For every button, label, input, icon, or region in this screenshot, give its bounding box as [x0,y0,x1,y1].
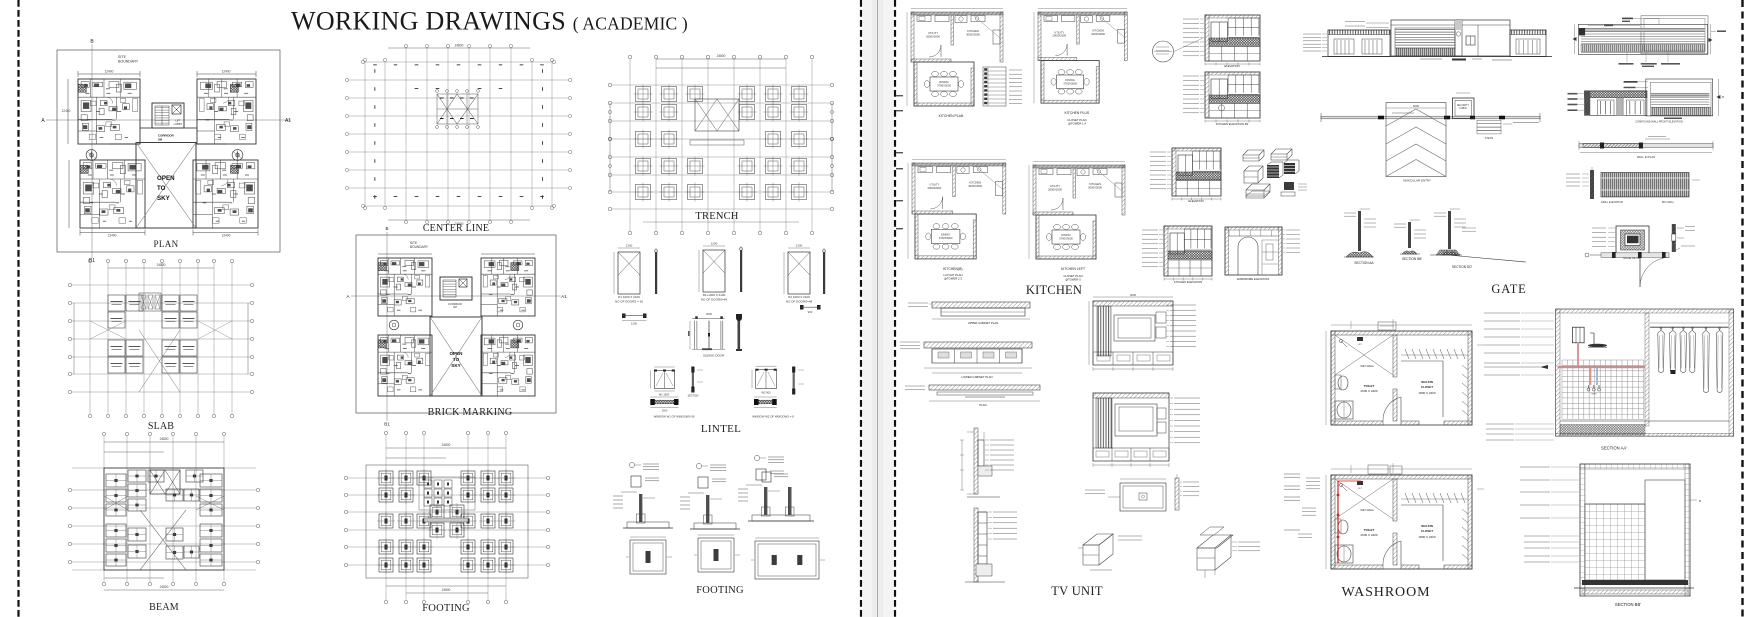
brick dim top [378,253,432,255]
section AA lower-left leaders [1486,423,1514,425]
svg-text:KITCHEN ELEVATION: KITCHEN ELEVATION [1174,280,1202,284]
svg-text:1200: 1200 [796,244,803,248]
wall plan section R3 [1579,137,1713,160]
washroom2 top fixtures [1368,465,1388,474]
svg-text:SKY: SKY [451,363,460,368]
svg-text:DINING: DINING [1065,78,1074,82]
tv section detail 1 [974,428,978,494]
svg-text:B: B [1699,499,1701,503]
corridor walls [140,127,152,129]
svg-text:3000X3000: 3000X3000 [1091,32,1105,36]
svg-text:12400: 12400 [62,109,71,113]
door swing detail R6 [1585,246,1695,287]
svg-text:2000X2000: 2000X2000 [926,35,940,39]
beam main outline [104,468,224,570]
slab grid horizontals [72,284,250,286]
R1 bottom leaders [1626,52,1628,62]
unit lower-right [193,160,258,228]
door plan detail right [800,305,804,310]
gate top leaders [1366,22,1389,24]
kitchen detail circle [1153,41,1174,62]
shower head [1593,333,1595,344]
kitchen counters [1044,16,1058,22]
gate leader notes left [1303,33,1321,35]
3d cabinet shelves dark [1267,165,1279,178]
geyser unit [1572,327,1584,343]
svg-text:WALKIN: WALKIN [1421,524,1433,528]
washroom dims [1325,475,1327,569]
svg-text:CLOSET: CLOSET [1421,529,1433,533]
footing section F3 double [768,456,784,458]
gate left wing [1328,30,1390,57]
svg-text:KITCHEN: KITCHEN [1092,28,1104,32]
svg-text:WINDOW W1 OF WINDOWS-56: WINDOW W1 OF WINDOWS-56 [654,415,695,419]
unit upper-right [197,79,256,144]
R1 leader notes top [1622,18,1633,20]
svg-text:1200: 1200 [631,322,638,326]
svg-text:CENTER LINE: CENTER LINE [423,223,489,234]
grid vertical lines [364,62,366,206]
section BB leaders [1520,466,1550,468]
section AA outer walls [1556,309,1734,436]
kitchen upper walls [912,165,1006,214]
footing plan F2 [698,538,734,572]
site boundary rectangle [57,50,280,252]
compass rose right [232,150,243,161]
kitchen counters [918,167,932,173]
svg-text:WINDOW W2 OF WINDOWS = 8: WINDOW W2 OF WINDOWS = 8 [752,415,794,419]
svg-text:24800: 24800 [455,44,464,48]
svg-text:A: A [346,294,349,299]
kitchen door arc [930,197,942,209]
svg-text:KITCHEN PLUS: KITCHEN PLUS [1064,111,1089,115]
sheet divider center dashed lines [860,0,862,617]
footing grid horizontals [348,477,546,479]
svg-text:12400: 12400 [222,234,231,238]
kitchen dims [1028,165,1030,215]
svg-text:LINTEL: LINTEL [701,423,741,435]
svg-text:SECTION DD': SECTION DD' [1452,265,1473,269]
section BB tiled wall [1585,504,1645,580]
red water pipe [1337,481,1339,563]
door jamb section [740,250,742,292]
window W1 sill plan [650,399,655,405]
trench dims [656,58,786,60]
gate elevation [1303,20,1552,61]
unit lower-left [80,160,145,228]
tv unit elevation 2 [1093,393,1169,461]
svg-text:WARDROBE ELEVATION: WARDROBE ELEVATION [1237,277,1269,281]
door elevation [788,252,810,294]
section DD wall [1434,212,1446,214]
footing layout FOOTING [344,431,549,614]
svg-text:TO: TO [453,357,460,362]
window W1 section bar [691,367,694,373]
section BB wall [1394,223,1406,225]
svg-text:COMPOUND WALL FRONT ELEVATION: COMPOUND WALL FRONT ELEVATION [1635,119,1683,123]
compound wall elevation R1 [1573,16,1727,67]
washroom partition wall [1393,479,1397,521]
tv elevation2 leaders [1174,397,1200,399]
centerline A-A1 horizontal [46,119,291,121]
svg-text:KITCHEN: KITCHEN [1089,182,1101,186]
brick lift block [440,277,472,300]
section AA pink horizontal pipe [1558,366,1645,368]
sheet border right dashed [1741,0,1743,617]
kitchen counters [917,16,931,22]
basin fixture [1335,545,1353,563]
slab outer dims [108,267,214,269]
lower cabinet plan [924,342,1032,348]
dining room walls [1041,61,1099,104]
trench grid verticals [629,59,631,231]
security cabin [1453,98,1475,119]
washroom outer walls [1331,475,1472,569]
trench pits [636,87,651,102]
section AA floor [1560,420,1729,422]
grid horizontal lines [365,61,552,63]
svg-text:BRICK MARKING: BRICK MARKING [428,407,513,418]
svg-text:3700X3000: 3700X3000 [939,236,953,240]
svg-text:GATE: GATE [1491,282,1526,296]
svg-text:LOBBY: LOBBY [174,122,183,126]
footing section F1 [643,463,659,465]
svg-text:WET AREA: WET AREA [1360,508,1374,512]
svg-text:W2 900: W2 900 [762,391,771,395]
brick centerlines [386,232,388,421]
kitchen door arc [929,45,941,57]
gate center structure [1391,20,1510,56]
svg-text:NO OF DOORS=64: NO OF DOORS=64 [701,298,728,302]
svg-text:3600: 3600 [1130,293,1137,297]
svg-text:VEHICULAR ENTRY: VEHICULAR ENTRY [1403,179,1431,183]
svg-text:900: 900 [808,310,813,314]
R2 labels [1664,118,1682,120]
brick unit upper-left [378,258,432,316]
beam lift core [150,470,180,494]
R2 right slat band [1651,107,1710,115]
brick site boundary [356,235,556,413]
footing plan F1 [630,540,666,574]
tv section detail 2 [974,508,978,582]
tv table side detail [1175,478,1179,510]
section BB drawing [1520,464,1701,607]
svg-text:SECTION AA: SECTION AA [1354,261,1374,265]
gate pillar [1455,20,1462,56]
kitchen dims [1033,12,1035,61]
svg-text:OPEN: OPEN [157,175,175,182]
svg-text:1200: 1200 [711,242,718,246]
floor plan PLAN [41,39,291,264]
svg-text:WET AREA: WET AREA [1360,364,1374,368]
gate chevron driveway [1386,103,1446,177]
central braced core [437,94,478,124]
dimension line left [67,79,69,144]
svg-text:@TOWER 2,3: @TOWER 2,3 [944,277,962,281]
R1 left dark block [1579,28,1585,35]
svg-text:@TOWER 1,4: @TOWER 1,4 [1068,122,1086,126]
svg-text:NO OF DOORS=48: NO OF DOORS=48 [786,300,813,304]
svg-text:@TOWER 5: @TOWER 5 [1065,278,1081,282]
svg-text:KITCHEN(B): KITCHEN(B) [943,267,962,271]
R1 horizontal louvre lines [1581,33,1705,35]
svg-text:SECTION: SECTION [688,395,699,398]
door plan detail left [622,314,626,319]
brick courtyard [430,317,482,396]
compound wall front elevation R2 [1568,79,1725,123]
svg-text:5M: 5M [453,305,457,309]
gate louvres [1395,28,1455,48]
brick compass left [389,320,399,330]
kitchen elevation 5 arch [1225,227,1300,281]
R1 bottom slat band [1581,45,1705,52]
basin fixture [1335,401,1353,419]
R2 left dark post [1585,91,1591,115]
dining room walls [914,62,974,106]
kitchen 3d cabinet sketches [1243,149,1307,198]
washroom partition wall [1393,335,1397,377]
R2 right dim [1717,79,1719,116]
grill detail R4 [1566,167,1700,204]
footing outer rect [366,465,528,578]
svg-text:UTILITY: UTILITY [1050,184,1060,188]
kitchen plan 4 [1029,162,1125,282]
floor plan BRICK MARKING [346,226,567,427]
footing center cluster [419,477,475,510]
beam grid horizontals [72,467,256,469]
outer dimension lines [388,47,530,49]
geyser pink pipe down [1577,343,1579,366]
R4 post detail [1590,170,1594,199]
beam bottom dims [104,577,164,579]
svg-text:SLIDING DOOR: SLIDING DOOR [703,354,724,358]
trench central core [695,99,739,131]
washroom plan 2 [1298,463,1484,569]
kitchen counters [1039,169,1053,175]
svg-text:WALKIN: WALKIN [1421,380,1433,384]
washroom1 top small fixture [1378,322,1396,330]
svg-text:6000: 6000 [1413,104,1420,108]
centerline B-B1 vertical [91,44,93,258]
svg-text:TAPS: TAPS [1591,393,1597,396]
beam layout BEAM [68,432,259,613]
dining room walls [1036,215,1096,259]
svg-text:D1+1000 X 2100: D1+1000 X 2100 [703,293,726,297]
beam side X right [196,496,224,510]
svg-text:UTILITY: UTILITY [929,182,939,186]
svg-text:KITCHEN LEFT: KITCHEN LEFT [1061,267,1085,271]
gate right portion [1477,25,1479,56]
window W1 elevation [654,371,674,389]
door leaf and arc [1639,257,1641,287]
closet hanger zone [1401,498,1468,500]
gate bottom labels [1420,58,1442,60]
kitchen door arc [1051,198,1063,210]
svg-text:UPPER CABINET PLAN: UPPER CABINET PLAN [968,321,999,325]
tv unit elevation 1 [1093,301,1173,365]
sofa 3d sketch 2 [1197,535,1233,548]
tv elevation1 dims [1093,296,1173,298]
washroom outer walls [1331,331,1472,425]
kitchen plan 2 [1034,9,1127,126]
dining room walls [915,214,976,259]
mixer pipes pink blue [1590,368,1592,385]
svg-text:TV UNIT: TV UNIT [1051,584,1103,598]
svg-text:KITCHEN: KITCHEN [1026,283,1082,297]
svg-text:BOUNDARY: BOUNDARY [410,245,429,249]
svg-text:BEAM: BEAM [149,602,179,613]
R2 leaders top [1624,81,1638,83]
svg-text:KITCHEN: KITCHEN [967,29,979,33]
dark garment end [1671,370,1676,374]
gate ground line [1322,56,1552,58]
3d tv unit sketch [1246,184,1270,198]
section AA leader notes [1484,312,1520,314]
svg-text:1800 X 2400: 1800 X 2400 [1418,391,1435,395]
svg-text:24800: 24800 [442,443,451,447]
footing plan F3 wide [755,541,819,579]
svg-text:FOOTING: FOOTING [696,585,744,596]
dining table and chairs [931,229,960,243]
tv table plan [1120,483,1166,511]
section BB outer walls [1580,464,1690,596]
section AA tile grid [1562,360,1644,420]
gate right wing [1510,30,1546,57]
svg-text:WASHROOM: WASHROOM [1342,585,1431,600]
door elevation [703,250,725,292]
kitchen elevation 2 [1183,72,1260,126]
gate plan wall line [1321,116,1540,119]
svg-text:D1 1000 X 2100: D1 1000 X 2100 [618,295,640,299]
R1 top gray band [1581,28,1705,31]
trench grid horizontals [612,84,830,86]
brick unit lower-left [378,335,432,396]
washroom door arc [1382,397,1384,421]
kitchen elevation 1 [1183,15,1260,68]
window W2 sill plan [754,399,759,405]
svg-text:SECTION BB': SECTION BB' [1615,602,1641,607]
svg-text:DINING: DINING [1061,233,1070,237]
R2 leaders left [1568,93,1578,95]
3d detail hatched [1284,182,1294,190]
svg-text:3000X3000: 3000X3000 [968,184,982,188]
toilet wet area X [1335,335,1393,375]
svg-text:SKY: SKY [157,195,171,202]
shower symbol [1339,483,1342,486]
section AA drawing [1484,309,1734,451]
clothes on hangers [1660,327,1662,330]
svg-text:2000 X 2400: 2000 X 2400 [1360,533,1377,537]
svg-text:PLAN: PLAN [979,403,986,407]
svg-text:12400: 12400 [222,70,231,74]
svg-text:24800: 24800 [717,54,726,58]
svg-text:KITCHEN PLAN: KITCHEN PLAN [939,114,964,118]
svg-text:CABIN: CABIN [1459,107,1467,110]
svg-text:TO: TO [157,185,166,192]
svg-text:NO OF DOORS = 16: NO OF DOORS = 16 [615,300,643,304]
R5 leaders [1592,227,1606,229]
footing grid verticals [385,435,387,600]
slab stair core [139,293,161,311]
kitchen dims [907,163,909,214]
slab courtyard diagonals [139,330,180,392]
slab panels [108,295,125,311]
sofa sketch1 leaders [1118,535,1142,537]
door jamb section [655,252,657,294]
gate plan [1321,93,1540,183]
svg-text:UTILITY: UTILITY [1054,30,1064,34]
beam side X left [104,496,128,510]
section AA room divider wall [1645,313,1649,426]
svg-text:2000X2000: 2000X2000 [1052,34,1066,38]
svg-text:KITCHEN ELEVATION B2: KITCHEN ELEVATION B2 [1216,122,1249,126]
R1 side dim arrows [1574,24,1576,54]
notes column between tv and washroom [1284,474,1300,530]
svg-text:ELEVATION: ELEVATION [1224,64,1239,68]
svg-text:PLAN: PLAN [153,239,178,249]
svg-text:1200: 1200 [626,244,633,248]
svg-text:DINING: DINING [941,232,950,236]
svg-text:WALL IN PLAN: WALL IN PLAN [1637,155,1655,159]
footing top dims [386,447,506,449]
svg-text:W1 1500: W1 1500 [659,393,670,397]
door jamb section [823,252,825,294]
footing section details [613,455,825,596]
svg-text:3700X3000: 3700X3000 [1063,81,1077,85]
tv section1 dims [961,440,963,490]
dining table and chairs [930,77,958,91]
svg-text:3000X3000: 3000X3000 [1088,186,1102,190]
svg-text:24800: 24800 [157,263,166,267]
footing small col F3 [762,472,771,482]
svg-text:A1: A1 [285,118,291,124]
svg-text:GRILL ELEVATION: GRILL ELEVATION [1601,200,1623,204]
svg-text:SITE: SITE [118,55,127,59]
slab plan SLAB [68,259,253,432]
svg-text:24800: 24800 [160,585,169,589]
R2 center gray post [1617,98,1623,116]
gate steps [1477,120,1501,123]
lift and stair block [152,103,184,128]
tv section1 leaders [990,439,1014,441]
sliding door elevation [693,321,695,350]
kitchen elevation 3 [1150,148,1221,203]
svg-text:B: B [1722,95,1724,99]
dining table and chairs [1052,230,1080,244]
svg-text:1800 X 2400: 1800 X 2400 [1418,535,1435,539]
gate wall sections [1344,209,1527,296]
sheet fold shading [863,0,893,617]
svg-text:B1: B1 [384,422,390,427]
sheet border left dashed [17,0,19,617]
door elevation [618,252,640,294]
section BB floor bands [1582,580,1688,585]
dimension line bottom units [80,232,145,234]
R2 slat panel 2 [1627,100,1645,115]
svg-text:TOILET: TOILET [1364,528,1375,532]
kitchen upper walls [1038,14,1127,61]
door window details LINTEL [614,242,826,436]
arch opening [1238,237,1258,275]
taps [1588,385,1590,388]
slab grid verticals [89,263,91,414]
tv unit drawings [900,293,1260,598]
svg-text:CLOSET: CLOSET [1421,385,1433,389]
svg-text:3700X3000: 3700X3000 [937,84,951,88]
sliding door jamb [738,315,741,350]
svg-text:12400: 12400 [105,70,114,74]
courtyard OPEN TO SKY [136,143,196,229]
